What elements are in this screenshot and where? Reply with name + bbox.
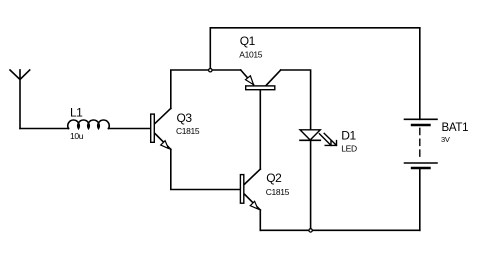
wire Q3 emitter to Q2 base: [171, 149, 240, 189]
wire top rail: [210, 27, 419, 29]
LED D1: [300, 130, 337, 146]
wire antenna to L1: [20, 128, 69, 130]
wire Q1 base to Q2 collector: [259, 90, 261, 169]
svg-text:A1015: A1015: [239, 49, 262, 59]
transistor Q2: [240, 169, 260, 210]
inductor L1: [68, 120, 109, 128]
svg-text:BAT1: BAT1: [442, 122, 469, 134]
wire battery to bottom rail: [419, 168, 421, 230]
wire Q3 collector to node A: [171, 70, 211, 108]
node B: [309, 229, 312, 232]
wire top rail to battery: [419, 28, 421, 120]
svg-text:L1: L1: [70, 105, 83, 119]
node A: [209, 69, 212, 72]
svg-text:10u: 10u: [70, 131, 84, 141]
svg-text:Q2: Q2: [266, 171, 282, 185]
wire Q2 emitter to bottom rail: [259, 210, 261, 230]
wire node A to top rail: [209, 28, 211, 70]
transistor Q3: [151, 108, 171, 149]
svg-text:D1: D1: [341, 129, 356, 143]
wire LED to bottom node: [310, 140, 312, 230]
svg-text:LED: LED: [341, 144, 357, 154]
svg-text:3V: 3V: [441, 135, 450, 144]
battery BAT1: [405, 119, 438, 168]
antenna: [10, 70, 30, 129]
transistor Q1: [241, 70, 281, 90]
svg-text:Q3: Q3: [177, 111, 193, 125]
wire bottom rail: [260, 229, 420, 231]
svg-text:Q1: Q1: [240, 34, 256, 48]
wire L1 to Q3 base: [109, 128, 151, 130]
wire node A to Q1 emitter: [210, 69, 240, 71]
wire Q1 collector to LED: [281, 70, 311, 130]
svg-text:C1815: C1815: [176, 126, 200, 136]
svg-text:C1815: C1815: [266, 187, 290, 197]
